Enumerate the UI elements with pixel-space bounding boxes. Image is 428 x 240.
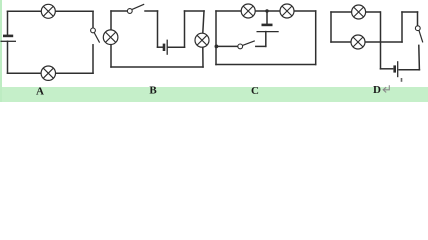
wire D switch upper stub — [417, 12, 419, 26]
wire C top — [216, 10, 316, 12]
battery G4 short thick plate — [393, 65, 396, 72]
svg-text:A: A — [36, 86, 44, 98]
wire D left vertical — [330, 12, 332, 42]
wire C battery top stub — [266, 11, 268, 24]
battery G1 short thick plate — [3, 35, 13, 38]
wire A top — [8, 10, 94, 12]
switch S2 pivot circle — [127, 9, 132, 14]
wire A left vertical (lower) — [7, 41, 9, 73]
wire C switch row right segment — [256, 45, 266, 47]
wire B bottom — [111, 66, 203, 68]
wire D middle row — [331, 41, 402, 43]
node junction dot left — [215, 45, 219, 49]
wire B battery-dip right stub — [168, 46, 185, 48]
switch S2 blade — [132, 4, 144, 9]
lamp L2 — [41, 66, 55, 80]
wire B battery-dip right vertical — [184, 11, 186, 47]
switch S4 pivot circle — [415, 26, 420, 31]
battery G1 long thin plate — [1, 40, 17, 42]
paragraph return mark — [383, 85, 389, 92]
battery G2 short thick plate — [163, 44, 166, 51]
lamp L4 — [195, 33, 209, 47]
wire B top-mid segment — [145, 10, 158, 12]
wire B right vertical — [203, 11, 204, 67]
wire D bottom-right segment — [399, 69, 419, 71]
wire A left vertical (upper) — [7, 11, 9, 35]
lamp L7 — [352, 5, 366, 19]
lamp L5 — [241, 4, 255, 18]
wire D top-right segment — [402, 11, 418, 13]
switch S3 blade — [243, 41, 255, 46]
wire C right vertical — [315, 11, 317, 65]
wire D up-jog vertical — [401, 12, 403, 42]
switch S3 pivot circle — [238, 44, 243, 49]
wire D switch lower stub — [418, 45, 421, 69]
switch S4 blade — [419, 31, 423, 43]
switch S1 blade — [94, 33, 99, 43]
battery G3 short thick plate — [262, 24, 273, 27]
node junction dot top — [265, 9, 268, 12]
lamp L6 — [280, 4, 294, 18]
scan speck — [401, 78, 403, 82]
green left margin line — [0, 0, 2, 102]
wire B left vertical — [110, 11, 112, 67]
battery G2 long thin plate — [166, 40, 168, 55]
battery G3 long thin plate — [257, 31, 279, 33]
switch S1 pivot circle — [91, 28, 96, 33]
wire A right vertical (upper) — [92, 11, 94, 28]
svg-text:C: C — [251, 85, 259, 97]
green answer-row strip — [0, 87, 428, 102]
battery G4 long thin plate — [397, 61, 399, 77]
wire B battery-dip left vertical — [157, 11, 159, 47]
lamp L1 — [41, 4, 55, 18]
wire B top-left segment — [111, 10, 127, 12]
svg-text:B: B — [149, 85, 157, 97]
wire C switch row left segment — [216, 45, 238, 47]
wire A right vertical (lower) — [92, 45, 94, 73]
lamp L3 — [103, 30, 118, 45]
wire D top — [331, 11, 380, 13]
svg-text:D: D — [373, 84, 381, 96]
wire C battery bottom stub — [265, 32, 267, 47]
wire B battery-dip left stub — [158, 46, 163, 48]
wire A bottom — [8, 72, 94, 74]
wire D bottom-left segment — [381, 68, 393, 70]
wire D right vertical of lamps — [380, 12, 382, 69]
wire B top-right segment — [185, 10, 205, 12]
wire C bottom — [216, 64, 316, 66]
lamp L8 — [351, 35, 365, 49]
wire C left vertical — [215, 11, 217, 65]
